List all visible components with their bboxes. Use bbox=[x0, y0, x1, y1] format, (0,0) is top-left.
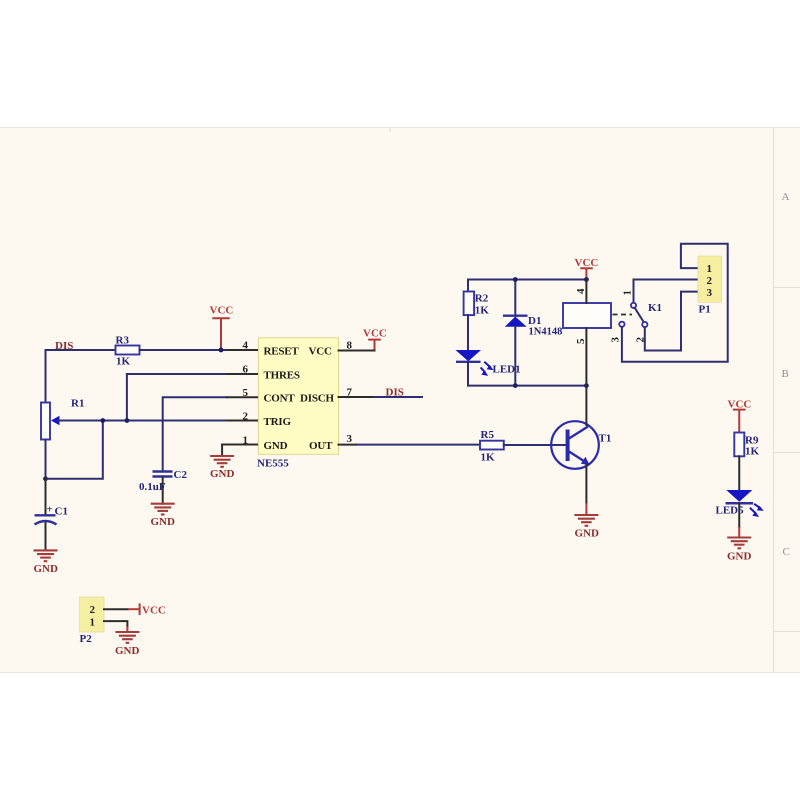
svg-text:GND: GND bbox=[34, 563, 59, 575]
svg-text:5: 5 bbox=[575, 338, 587, 344]
junction VCC rail bbox=[584, 277, 589, 282]
pin stub RESET pin4 bbox=[227, 349, 259, 351]
switch K1 common contact bbox=[634, 280, 699, 303]
svg-text:GND: GND bbox=[727, 551, 752, 563]
wire DIS net from pin7 bbox=[374, 396, 422, 398]
wire left vertical DIS down to R1 bbox=[45, 350, 47, 403]
pin stub GND pin1 bbox=[222, 444, 258, 446]
svg-text:1N4148: 1N4148 bbox=[529, 327, 563, 338]
junction collector rail bbox=[584, 383, 589, 388]
wire R9 to LED5 bbox=[738, 456, 740, 490]
svg-text:R2: R2 bbox=[475, 293, 489, 305]
pin stub OUT pin3 bbox=[339, 444, 357, 446]
switch blade bbox=[635, 308, 644, 322]
svg-text:R5: R5 bbox=[481, 429, 495, 441]
wire C1 bottom bbox=[45, 523, 47, 550]
svg-text:3: 3 bbox=[707, 287, 713, 299]
svg-text:NE555: NE555 bbox=[257, 458, 289, 470]
LED LED5 bbox=[726, 490, 752, 502]
svg-text:VCC: VCC bbox=[309, 345, 332, 357]
svg-text:6: 6 bbox=[243, 364, 249, 376]
junction R1 bottom / C1 / branch bbox=[43, 476, 48, 481]
svg-text:2: 2 bbox=[243, 411, 249, 423]
wire R2 top elbow bbox=[467, 280, 469, 292]
svg-text:TRIG: TRIG bbox=[264, 416, 292, 428]
wire relay pin5 bbox=[585, 328, 587, 386]
capacitor C2 bbox=[153, 470, 173, 472]
svg-text:1: 1 bbox=[243, 434, 249, 446]
connector P1 bbox=[698, 256, 722, 302]
ground GND under P2 bbox=[115, 631, 139, 633]
relay actuator dashed line bbox=[613, 314, 633, 316]
wire VCC rail top (R2/D1/relay) bbox=[468, 279, 586, 281]
ground GND under T1 bbox=[574, 514, 598, 516]
switch contact 2 bbox=[642, 322, 647, 327]
relay K1 coil bbox=[563, 303, 611, 328]
svg-text:C: C bbox=[783, 546, 790, 558]
wire THRES vertical bbox=[126, 374, 128, 421]
wire pin1 down to ground bbox=[221, 445, 223, 457]
connector P2 bbox=[80, 597, 104, 632]
wire R2 to LED1 bbox=[467, 315, 469, 350]
LED LED1 bbox=[456, 350, 482, 361]
pin stub THRES pin6 bbox=[227, 373, 259, 375]
wire R3 to pin4 bbox=[140, 349, 228, 351]
svg-text:3: 3 bbox=[610, 337, 622, 343]
svg-text:VCC: VCC bbox=[142, 605, 166, 617]
wire R1 bottom bbox=[45, 440, 47, 479]
svg-text:VCC: VCC bbox=[363, 328, 387, 340]
wire CONT elbow to C2 bbox=[163, 397, 227, 471]
svg-text:GND: GND bbox=[264, 440, 288, 452]
svg-text:C1: C1 bbox=[55, 506, 68, 518]
svg-text:LED1: LED1 bbox=[493, 364, 521, 376]
ground GND under pin1 bbox=[210, 455, 234, 457]
junction THRES on TRIG bbox=[125, 418, 130, 423]
svg-text:VCC: VCC bbox=[575, 257, 599, 269]
resistor R5 bbox=[480, 441, 504, 450]
switch contact 3 bbox=[619, 322, 624, 327]
svg-text:P1: P1 bbox=[699, 304, 711, 316]
svg-text:+: + bbox=[47, 504, 53, 516]
svg-text:1K: 1K bbox=[481, 452, 496, 464]
svg-text:2: 2 bbox=[90, 604, 96, 616]
svg-text:2: 2 bbox=[707, 275, 713, 287]
transistor T1 bbox=[551, 421, 599, 469]
svg-text:1: 1 bbox=[90, 617, 96, 629]
svg-text:1K: 1K bbox=[475, 305, 490, 317]
resistor R9 bbox=[734, 433, 744, 457]
svg-text:OUT: OUT bbox=[309, 440, 333, 452]
ground GND under C1 bbox=[34, 549, 58, 551]
svg-text:GND: GND bbox=[151, 516, 176, 528]
svg-text:T1: T1 bbox=[599, 433, 612, 445]
svg-text:GND: GND bbox=[575, 528, 600, 540]
svg-text:P2: P2 bbox=[80, 633, 93, 645]
svg-text:R3: R3 bbox=[116, 335, 130, 347]
junction D1 top bbox=[513, 277, 518, 282]
svg-text:4: 4 bbox=[575, 288, 587, 294]
pin stub TRIG pin2 bbox=[227, 420, 259, 422]
junction D1 bottom bbox=[513, 383, 518, 388]
svg-text:CONT: CONT bbox=[264, 393, 296, 405]
pin stub CONT pin5 bbox=[227, 396, 259, 398]
wire OUT to R5 bbox=[356, 444, 480, 446]
svg-text:DIS: DIS bbox=[386, 387, 404, 399]
pin stub VCC pin8 bbox=[339, 350, 375, 352]
svg-text:RESET: RESET bbox=[264, 345, 300, 357]
wire T1 emitter down bbox=[585, 465, 587, 504]
capacitor C1 bbox=[35, 514, 56, 516]
wire T1 collector up bbox=[585, 386, 587, 425]
resistor R3 bbox=[116, 346, 140, 355]
svg-text:GND: GND bbox=[210, 468, 235, 480]
op-amp U1 NE555 body bbox=[259, 338, 339, 455]
wire bottom rail bbox=[468, 385, 586, 387]
svg-text:C2: C2 bbox=[174, 469, 188, 481]
resistor R2 bbox=[464, 292, 475, 316]
svg-text:GND: GND bbox=[115, 645, 140, 657]
diode D1 1N4148 bbox=[514, 280, 516, 316]
wire LED5 to ground bbox=[738, 503, 740, 527]
wire C2 bottom bbox=[162, 477, 164, 504]
potentiometer R1 bbox=[41, 403, 50, 440]
wire DIS horizontal to R3 bbox=[46, 349, 116, 351]
wire branch to TRIG bbox=[46, 421, 103, 479]
svg-text:D1: D1 bbox=[528, 315, 541, 327]
svg-text:3: 3 bbox=[347, 433, 353, 445]
ground GND under C2 bbox=[151, 503, 175, 505]
ground GND under LED5 bbox=[727, 536, 751, 538]
svg-text:1: 1 bbox=[707, 263, 713, 275]
svg-text:1K: 1K bbox=[745, 446, 760, 458]
svg-text:4: 4 bbox=[243, 340, 249, 352]
pin stub DISCH pin7 bbox=[339, 396, 375, 398]
junction branch on TRIG bbox=[100, 418, 105, 423]
wire P2 pin1 to ground bbox=[104, 621, 127, 626]
wire THRES horizontal bbox=[127, 373, 227, 375]
junction pin4/VCC/R3 bbox=[219, 348, 224, 353]
wire R5 to T1 base bbox=[504, 444, 566, 446]
svg-text:R1: R1 bbox=[71, 398, 84, 410]
svg-text:B: B bbox=[782, 368, 789, 380]
svg-text:K1: K1 bbox=[648, 302, 662, 314]
wire junction down to C1 bbox=[45, 479, 47, 516]
wire relay pin4 bbox=[585, 280, 587, 304]
svg-text:1: 1 bbox=[622, 290, 634, 296]
svg-text:1K: 1K bbox=[116, 356, 131, 368]
svg-text:VCC: VCC bbox=[210, 305, 234, 317]
svg-text:DISCH: DISCH bbox=[300, 393, 334, 405]
wire P2 pin2 to VCC bbox=[104, 608, 128, 610]
svg-text:A: A bbox=[782, 191, 790, 203]
wire R1 wiper to TRIG bbox=[58, 420, 227, 422]
svg-text:THRES: THRES bbox=[264, 369, 300, 381]
wire LED1 to bottom rail bbox=[467, 362, 469, 386]
svg-text:2: 2 bbox=[635, 337, 647, 343]
svg-text:5: 5 bbox=[243, 387, 249, 399]
